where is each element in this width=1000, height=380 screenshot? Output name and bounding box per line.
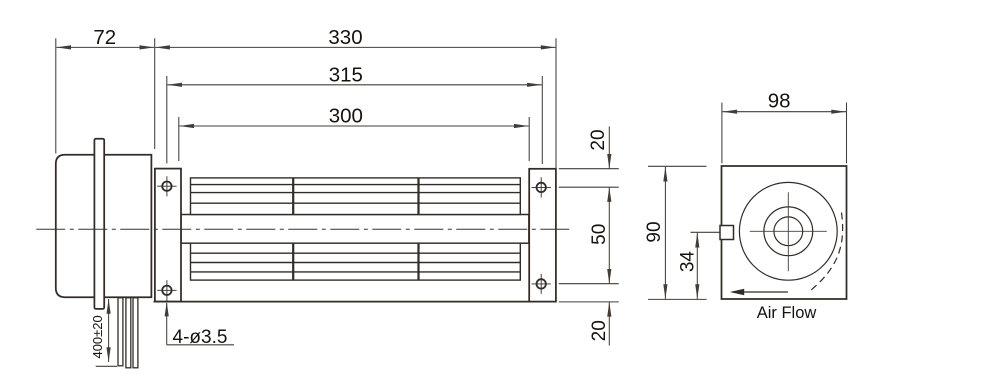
svg-text:90: 90 [644, 221, 665, 242]
dim 34 extension [691, 231, 720, 233]
label 98 [768, 90, 791, 113]
label 72 [93, 26, 116, 49]
svg-text:20: 20 [589, 320, 610, 341]
left flange hole top [157, 176, 176, 196]
label 300 [329, 105, 363, 128]
fan impeller drum [181, 215, 529, 244]
air flow arrow [730, 289, 788, 295]
label 400±20 [90, 315, 105, 358]
motor mounting bracket bar [94, 139, 104, 309]
svg-text:315: 315 [329, 64, 363, 87]
dim line 300 [179, 124, 528, 128]
axis centerline left view [36, 228, 572, 230]
dim line 34 [695, 233, 699, 299]
dim line 72 [56, 45, 154, 49]
svg-text:34: 34 [678, 251, 699, 273]
bottom support bar [154, 301, 557, 303]
label 20 bottom right [589, 320, 610, 341]
dim 315 extension left [166, 76, 168, 164]
dim line 330 [155, 45, 555, 49]
svg-text:Air Flow: Air Flow [757, 304, 817, 322]
label Air Flow [757, 304, 817, 322]
label 20 top right [588, 129, 609, 150]
right flange hole top [532, 177, 551, 197]
scroll outer circle [739, 182, 837, 280]
dim 300 extension right [528, 117, 530, 161]
svg-text:98: 98 [768, 90, 791, 113]
dim line 98 [722, 110, 846, 114]
dim 330/72 shared extension line [154, 38, 156, 149]
wire lead 1 [118, 298, 123, 366]
svg-text:400±20: 400±20 [90, 315, 105, 358]
svg-text:300: 300 [329, 105, 363, 128]
circle crosshair [750, 192, 827, 271]
impeller section divider 1 [292, 178, 294, 280]
dim line 90 [663, 167, 667, 299]
left mounting flange [155, 169, 181, 302]
dim 90 extensions [648, 166, 707, 299]
impeller bottom blade band [191, 243, 521, 280]
housing square [722, 166, 847, 299]
volute dashed arc [810, 213, 843, 292]
dim 400±20 (wire length) [96, 299, 117, 366]
dim 300 extension left [178, 117, 180, 161]
label 50 [589, 224, 610, 245]
label 330 [328, 26, 362, 49]
right side stacked dims 20/50/20 extension lines [559, 169, 619, 302]
dim 315 extension right [541, 76, 543, 164]
dim 330 extension right [555, 38, 557, 168]
impeller top blade band [191, 178, 521, 215]
right flange hole bottom [532, 274, 551, 294]
svg-text:50: 50 [589, 224, 610, 245]
dim 98 extensions [722, 103, 847, 164]
label 34 [678, 251, 699, 273]
motor body M1 [56, 155, 152, 297]
wire lead 2 [126, 298, 131, 368]
svg-text:20: 20 [588, 129, 609, 150]
svg-text:72: 72 [93, 26, 116, 49]
bearing middle circle [764, 207, 813, 256]
dim 20 bottom (vertical) [607, 302, 611, 346]
dim line 315 [167, 83, 542, 87]
svg-text:330: 330 [328, 26, 362, 49]
dim 72 extension line left [55, 38, 57, 153]
svg-text:4-ø3.5: 4-ø3.5 [173, 327, 228, 348]
right mounting flange [529, 169, 556, 302]
terminal notch [720, 226, 734, 240]
label 315 [329, 64, 363, 87]
label 90 [644, 221, 665, 242]
dim 50 (vertical) [607, 187, 611, 284]
left flange hole bottom [157, 280, 176, 301]
impeller section divider 2 [417, 178, 419, 280]
dim 20 top (vertical) [607, 127, 611, 169]
label 4-ø3.5 [173, 327, 228, 348]
shaft inner circle [774, 217, 803, 246]
leader 4-ø3.5 [165, 302, 234, 345]
wire lead 3 [133, 298, 138, 368]
